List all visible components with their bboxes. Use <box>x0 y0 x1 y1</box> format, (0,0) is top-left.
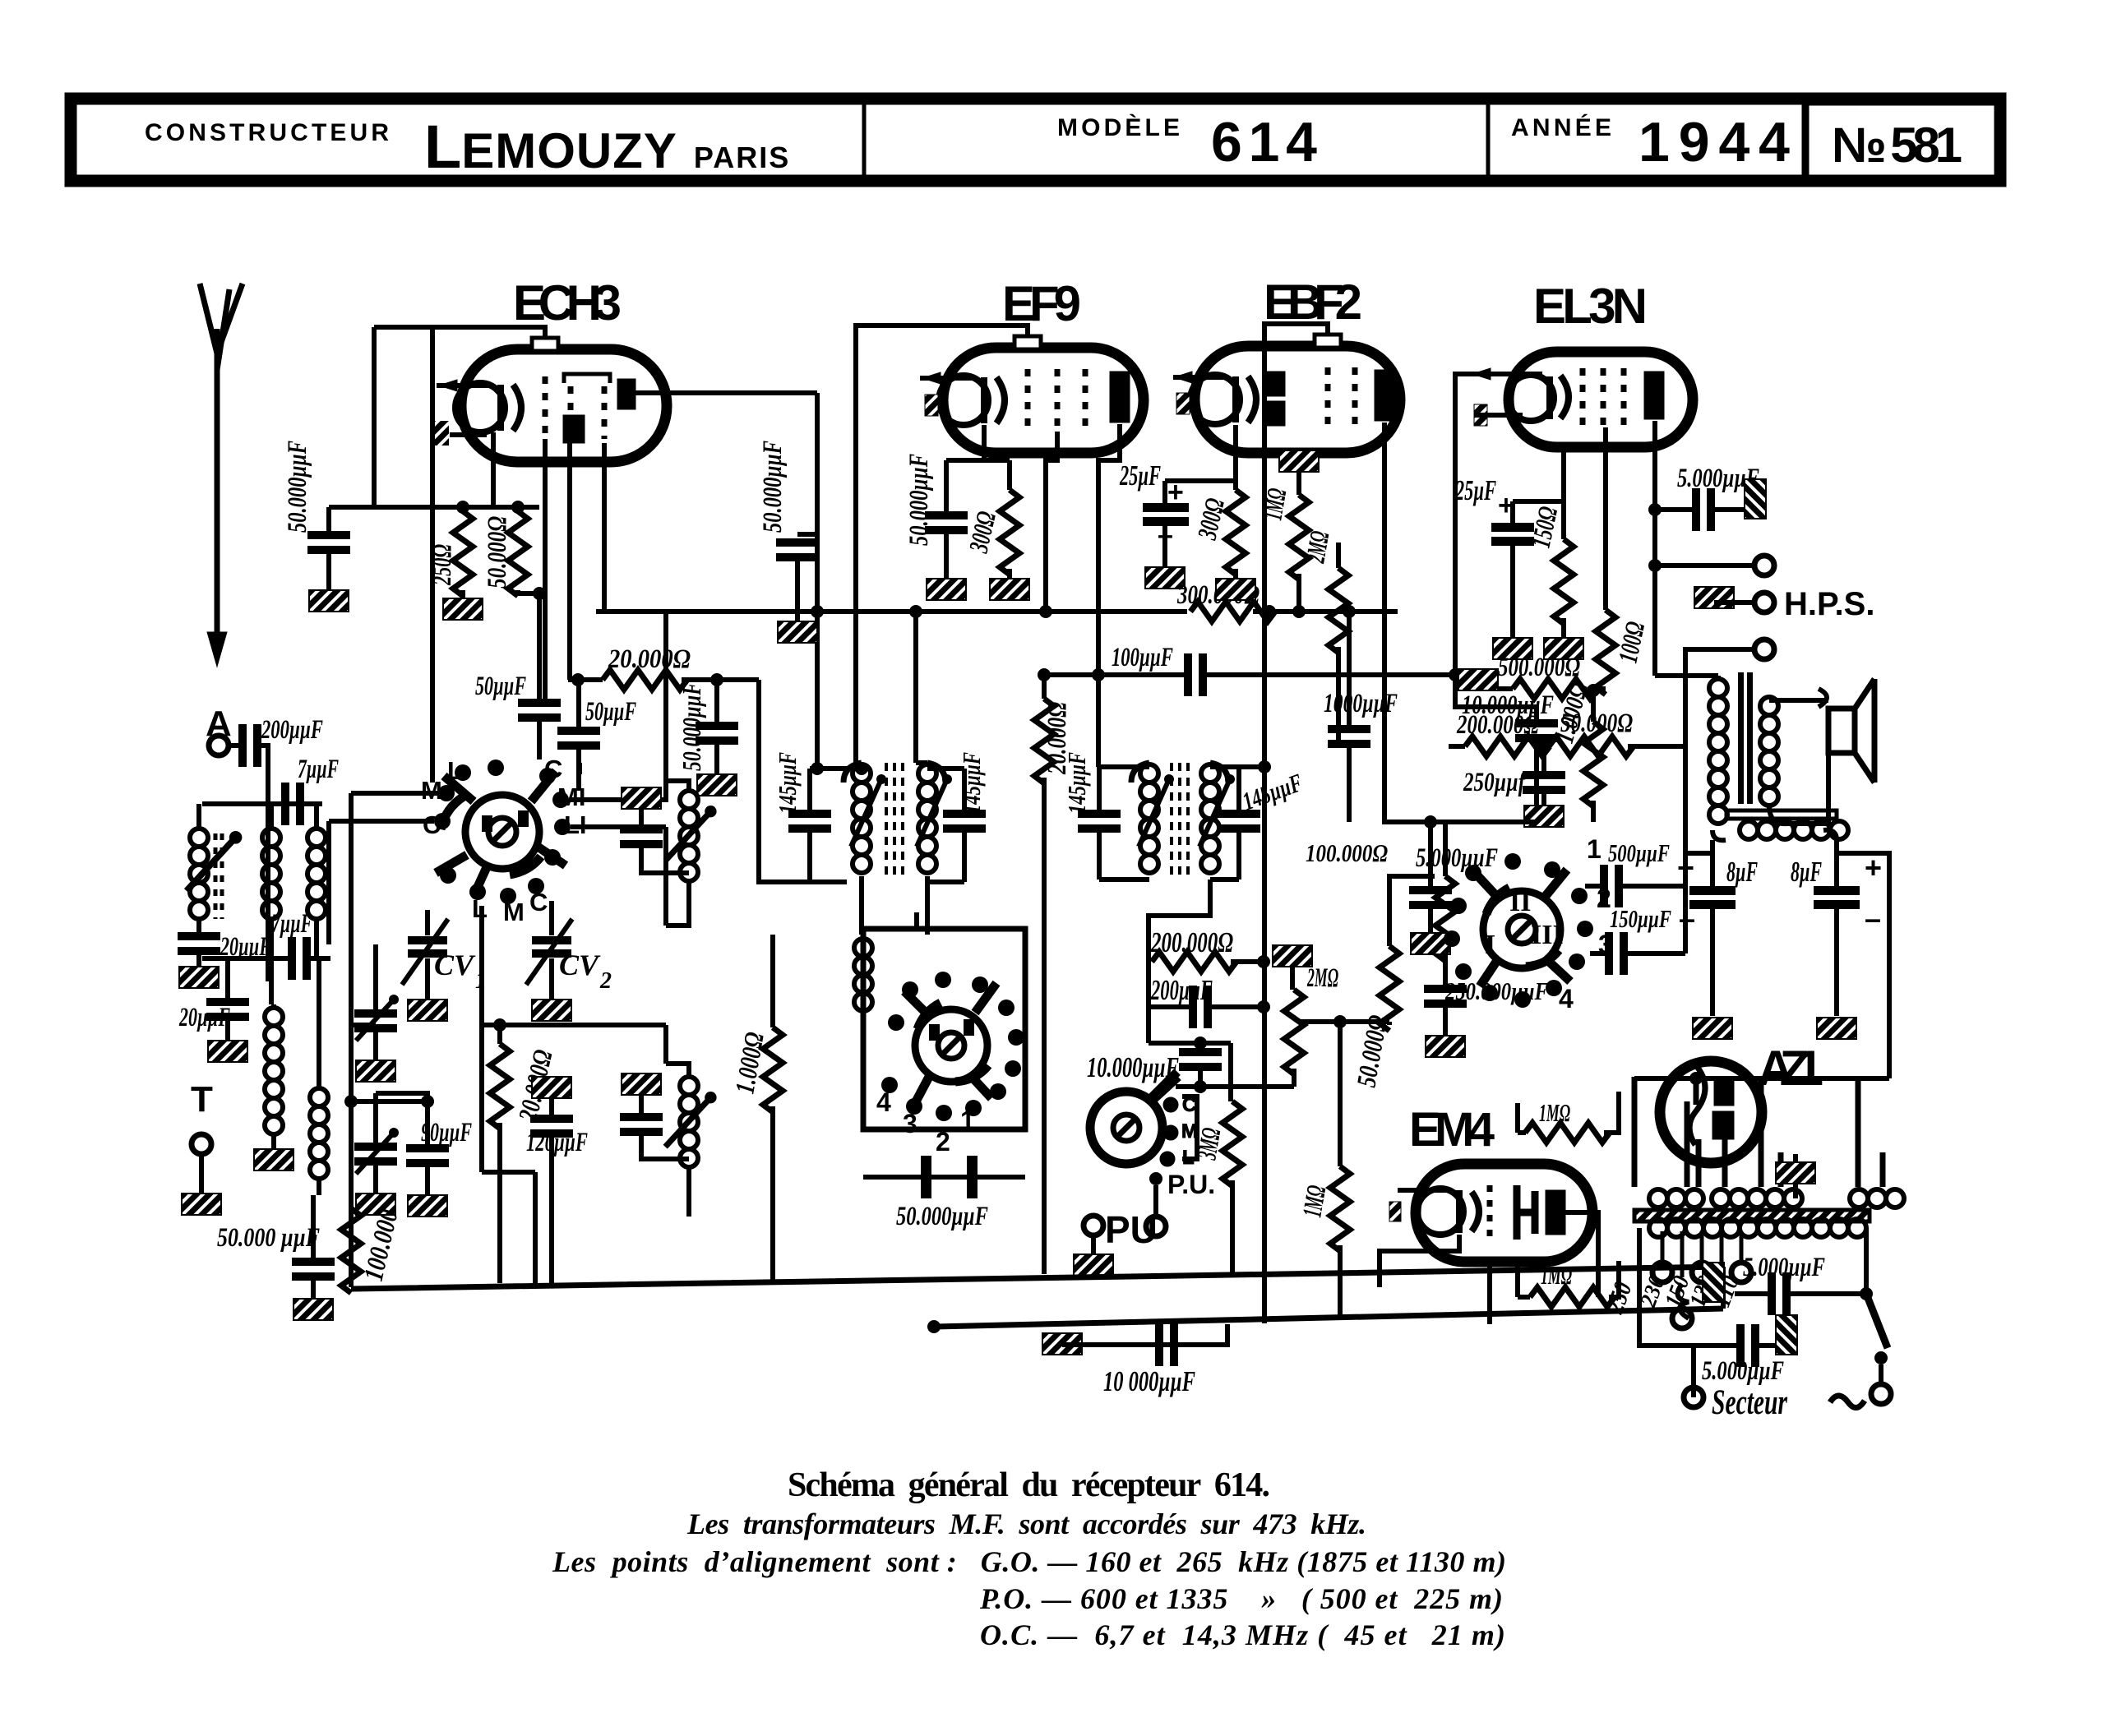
wire ECH3 grid1 drop <box>537 593 542 699</box>
ground 8uF right <box>1817 1018 1856 1039</box>
capacitor 10.000uuF bottom <box>1042 1333 1082 1355</box>
tube EL3N interior <box>1472 368 1664 426</box>
wire MF1 bottoms <box>862 876 927 935</box>
svg-text:25µF: 25µF <box>1119 459 1161 492</box>
capacitor 50.000uuF osc <box>921 1156 978 1198</box>
wire pot wiper <box>1149 1077 1178 1103</box>
transformer core bar <box>1634 1210 1870 1221</box>
header box frame <box>71 99 2003 181</box>
tube EM4 envelope <box>1416 1164 1592 1262</box>
svg-text:200µµF: 200µµF <box>1150 974 1213 1006</box>
ground 50.000uuF ECH3 anode <box>778 621 817 643</box>
svg-text:8µF: 8µF <box>1791 856 1822 888</box>
tube EM4 interior <box>1389 1185 1565 1240</box>
ground 25uF EL3N <box>1493 638 1532 659</box>
antenna coil L2 <box>262 829 280 919</box>
screen bus wire y744 <box>596 609 1398 614</box>
svg-text:–: – <box>1865 902 1881 935</box>
wire ECH3 top cap <box>374 327 545 783</box>
wire MF1 secondary bottom <box>810 769 817 882</box>
svg-text:10 000µµF: 10 000µµF <box>1103 1365 1195 1397</box>
wire AVC node <box>1299 1019 1389 1024</box>
transformer MF2 <box>1131 763 1228 783</box>
tube EBF2 interior <box>1173 367 1394 430</box>
ground CV1 <box>408 1000 447 1021</box>
svg-text:1MΩ: 1MΩ <box>1539 1098 1570 1127</box>
svg-text:120µµF: 120µµF <box>526 1128 588 1157</box>
resistor 20.000 ohm vertical osc <box>490 1044 510 1129</box>
svg-text:+: + <box>1677 851 1694 884</box>
svg-text:2MΩ: 2MΩ <box>1301 529 1335 566</box>
svg-text:EF9: EF9 <box>1002 276 1081 331</box>
svg-text:CV: CV <box>559 949 601 981</box>
transformer mains primary <box>1634 1077 1883 1187</box>
svg-text:50.000 µµF: 50.000 µµF <box>217 1223 320 1253</box>
filter choke <box>1740 821 1848 839</box>
svg-text:+: + <box>1865 851 1882 884</box>
svg-text:III: III <box>1531 920 1564 950</box>
svg-text:C: C <box>529 888 548 916</box>
terminals HPS <box>1655 563 1754 568</box>
rotary switch S2 <box>881 972 1024 1121</box>
svg-text:H.P.S.: H.P.S. <box>1784 586 1874 622</box>
resistor 2M ohm second <box>1273 945 1312 967</box>
svg-text:50.000Ω: 50.000Ω <box>483 516 512 589</box>
ground 150 ohm EL3N <box>1544 638 1583 659</box>
svg-text:50.000µµF: 50.000µµF <box>758 441 788 533</box>
ground 250uuF <box>1524 806 1564 827</box>
svg-text:7µµF: 7µµF <box>298 755 339 784</box>
wire S1 LI contact <box>571 827 666 926</box>
svg-text:O.C. — 6,7 et 14,3 MHz ( 45: O.C. — 6,7 et 14,3 MHz ( 45 et 21 m) <box>980 1618 1505 1651</box>
coil L5 <box>310 1088 328 1179</box>
svg-text:3MΩ: 3MΩ <box>1192 1126 1227 1162</box>
variable capacitor CV2 <box>532 936 571 958</box>
svg-text:PU: PU <box>1105 1208 1158 1251</box>
capacitor 200uuF <box>238 724 261 767</box>
antenna coil L3 <box>307 829 326 919</box>
ground 25uF EBF2 <box>1145 567 1185 589</box>
antenna symbol <box>200 284 243 658</box>
rotary switch S1 <box>434 759 571 904</box>
ground 20uuF lower <box>208 1041 247 1062</box>
svg-text:Les transformateurs M.F. so: Les transformateurs M.F. sont accordés s… <box>686 1507 1366 1540</box>
ground PU <box>1074 1254 1113 1276</box>
svg-text:AZ1: AZ1 <box>1758 1041 1823 1096</box>
wire ECH3 triode anode <box>636 390 817 395</box>
wire EBF2 top cap loop <box>1264 324 1328 767</box>
svg-text:ANNÉE: ANNÉE <box>1511 113 1611 141</box>
wire EF9 anode to MF2 <box>1098 424 1120 767</box>
wire ECH3 g3 loop <box>602 443 607 612</box>
wire EF9 screen to HT <box>1046 432 1057 612</box>
svg-text:500µµF: 500µµF <box>1608 838 1670 867</box>
wire EM4 leads <box>1380 1212 1598 1324</box>
resistor 50.000 ohm ECH3 <box>508 511 528 596</box>
wire osc mid <box>482 1023 666 1027</box>
svg-text:№ 581: № 581 <box>1832 118 1962 173</box>
ground 250 ohm <box>443 598 483 620</box>
resistor 100.000 ohm vertical <box>341 1208 361 1293</box>
svg-text:100.000Ω: 100.000Ω <box>1306 838 1388 867</box>
trimmer column left <box>354 1009 397 1032</box>
tube ECH3 interior <box>434 374 636 446</box>
oscillator coil S2 <box>854 939 872 1011</box>
svg-text:20.000Ω: 20.000Ω <box>608 644 691 674</box>
svg-text:100µµF: 100µµF <box>1112 643 1173 672</box>
svg-text:500.000Ω: 500.000Ω <box>1498 653 1580 682</box>
ground 250.000uuF <box>1426 1036 1465 1057</box>
svg-text:CV: CV <box>434 949 476 981</box>
tube ECH3 envelope <box>461 338 667 462</box>
wire lower left block <box>351 906 535 1283</box>
wire coil L1 <box>196 804 201 932</box>
wire EL3N anode <box>1652 421 1657 676</box>
svg-text:Les points d’alignement son: Les points d’alignement sont : G.O. — 16… <box>552 1545 1506 1578</box>
ground 8uF left <box>1693 1018 1732 1039</box>
wire EF9 top cap loop <box>856 325 1028 763</box>
tube EF9 envelope <box>943 336 1144 453</box>
ground coil L4 <box>254 1149 293 1170</box>
svg-text:I: I <box>1485 930 1495 960</box>
resistor 250 ohm <box>453 511 473 596</box>
svg-text:T: T <box>191 1079 213 1120</box>
svg-text:2: 2 <box>599 968 612 994</box>
oscillator block box S2 <box>863 929 1025 1129</box>
svg-text:EM4: EM4 <box>1409 1103 1495 1157</box>
svg-text:P.U.: P.U. <box>1167 1170 1215 1199</box>
svg-text:3: 3 <box>903 1109 917 1138</box>
svg-text:5.000µµF: 5.000µµF <box>1702 1356 1784 1386</box>
tube EL3N envelope <box>1509 352 1693 447</box>
svg-text:50.000µµF: 50.000µµF <box>896 1202 988 1231</box>
wire MF2 secondary bottom to diode <box>1149 880 1210 967</box>
svg-text:614: 614 <box>1211 111 1317 173</box>
capacitor 7uuF second <box>288 937 311 980</box>
svg-text:Schéma général du récepteur: Schéma général du récepteur 614. <box>788 1466 1270 1504</box>
svg-text:2MΩ: 2MΩ <box>1306 963 1338 993</box>
ground antenna coil <box>179 967 219 988</box>
wire transformer secondary <box>1769 700 1828 824</box>
svg-text:MI: MI <box>557 783 585 811</box>
svg-text:A: A <box>206 704 232 744</box>
svg-text:P.O. — 600 et 1335 » ( 50: P.O. — 600 et 1335 » ( 500 et 225 m) <box>979 1582 1503 1615</box>
svg-text:C: C <box>1182 1094 1196 1116</box>
svg-text:200µµF: 200µµF <box>261 715 323 745</box>
ground 50.000uuF antenna <box>293 1299 333 1320</box>
transformer taps <box>1662 1231 1741 1277</box>
svg-text:8µF: 8µF <box>1726 856 1758 888</box>
capacitor 7uuF <box>281 783 304 825</box>
bus masse bottom <box>351 1267 1723 1289</box>
svg-text:M: M <box>421 776 442 805</box>
wire ECH3 cathode rail <box>329 432 539 507</box>
resistor 1M ohm EBF2 <box>1279 450 1319 472</box>
wire PSU B+ <box>1685 853 1889 1078</box>
svg-text:L: L <box>447 756 463 785</box>
wire 7uuF second <box>202 956 330 961</box>
wire 20uuF lower <box>225 958 230 1041</box>
svg-text:145µµF: 145µµF <box>773 752 802 814</box>
svg-text:–: – <box>1679 902 1695 935</box>
wire S1 left contacts <box>329 793 438 821</box>
volume potentiometer <box>1090 1072 1198 1169</box>
wire detector vertical <box>1262 767 1267 1323</box>
svg-text:C: C <box>544 755 562 783</box>
svg-text:ECH3: ECH3 <box>513 275 622 330</box>
tube EF9 interior <box>920 369 1130 432</box>
tube EBF2 envelope <box>1195 335 1400 453</box>
svg-text:145µµF: 145µµF <box>957 752 986 814</box>
wire ECH3 anode to MF1 <box>817 393 862 769</box>
terminal PU pair <box>1149 1172 1162 1185</box>
svg-text:145µµF: 145µµF <box>1062 752 1091 814</box>
wire EBF2 anode AF <box>1384 422 1431 822</box>
ground terminal T <box>182 1193 221 1215</box>
resistor 500.000 ohm <box>1458 669 1498 690</box>
svg-text:L: L <box>1182 1147 1195 1169</box>
coil L4 long secondary <box>265 1008 283 1134</box>
capacitor 20uuF upper <box>178 932 220 955</box>
transformer secondary full winding <box>1649 1219 1794 1237</box>
ground 300 ohm EBF2 <box>1216 579 1255 600</box>
ground EF9 cathode cap <box>927 579 966 600</box>
output transformer <box>1716 676 1722 681</box>
tube AZ1 envelope <box>1660 1061 1762 1163</box>
oscillator coil block right of S1 <box>622 787 661 809</box>
transformer MF1 <box>844 763 945 783</box>
mains switch <box>1864 1248 1869 1294</box>
ground 5.000uuF AF <box>1411 933 1450 954</box>
svg-text:20µµF: 20µµF <box>178 1003 230 1032</box>
svg-text:EBF2: EBF2 <box>1264 275 1362 330</box>
svg-text:50.000µµF: 50.000µµF <box>283 441 312 533</box>
svg-text:C: C <box>423 810 441 839</box>
ground 300 ohm EF9 <box>990 579 1029 600</box>
svg-text:1: 1 <box>1587 834 1602 864</box>
svg-text:10.000µµF: 10.000µµF <box>1087 1051 1179 1083</box>
svg-text:1: 1 <box>960 1106 975 1135</box>
svg-text:250µµf: 250µµf <box>1463 768 1527 797</box>
wire EL3N grid <box>1455 374 1537 719</box>
trimmer column left lower <box>354 1143 397 1166</box>
capacitor 120uuF <box>532 1077 571 1098</box>
ground 50.000uuF ECH3 <box>309 590 349 612</box>
antenna coil L1 <box>190 829 208 919</box>
svg-text:50µµF: 50µµF <box>585 697 636 727</box>
svg-text:25µF: 25µF <box>1454 474 1496 506</box>
wire ECH3 g2 drop <box>567 443 572 680</box>
svg-text:4: 4 <box>876 1087 891 1117</box>
svg-text:M: M <box>503 898 525 926</box>
svg-text:II: II <box>1509 887 1531 917</box>
wire L2 <box>269 804 274 1004</box>
svg-text:50µµF: 50µµF <box>475 672 526 701</box>
svg-text:2: 2 <box>936 1127 950 1157</box>
terminal A <box>209 736 229 755</box>
svg-text:EL3N: EL3N <box>1533 279 1648 334</box>
wire S1 MI contact <box>569 611 666 800</box>
vertical feed left <box>329 793 351 1283</box>
wire EL3N anode to transformer <box>1655 676 1718 679</box>
variable capacitor CV1 <box>408 936 447 958</box>
capacitor 20uuF lower <box>206 998 249 1021</box>
svg-text:150µµF: 150µµF <box>1610 904 1671 933</box>
ground CV2 <box>532 1000 571 1021</box>
wire PSU top rail <box>1634 1076 1889 1081</box>
capacitor 5.000uuF mains bottom <box>1639 1248 1694 1397</box>
svg-text:50.000Ω: 50.000Ω <box>1560 709 1633 738</box>
ground 5.000uuF EL3N <box>1745 479 1766 519</box>
svg-text:Secteur: Secteur <box>1712 1383 1788 1422</box>
svg-text:4: 4 <box>1559 984 1574 1013</box>
oscillator coil block lower <box>622 1073 661 1095</box>
tube AZ1 interior <box>1689 1064 1734 1145</box>
wire antenna input <box>202 746 322 981</box>
rotary switch S3 tone <box>1444 853 1593 1008</box>
speaker <box>1819 679 1874 783</box>
